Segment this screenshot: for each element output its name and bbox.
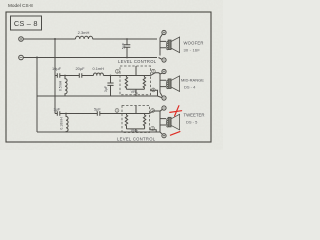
wire: vertical feed from plus rail down to mid and tweeter rows xyxy=(54,39,56,114)
wire: plus input to inductor xyxy=(23,38,75,40)
wire: tweeter row C6 to level control xyxy=(100,113,122,115)
wire: mid minus stub xyxy=(160,92,162,96)
woofer plus terminal xyxy=(162,30,166,34)
wire: minus rail xyxy=(23,57,157,59)
dashed box VR1 level control xyxy=(120,66,151,95)
tweeter minus terminal xyxy=(162,106,166,110)
resistor VR2b xyxy=(143,114,145,129)
wire: tweeter minus stub xyxy=(160,109,162,111)
woofer plus glyph xyxy=(163,31,165,33)
junction dot woofer cap bottom xyxy=(126,57,128,59)
woofer minus terminal xyxy=(162,58,166,62)
wire: woofer terminal bar xyxy=(159,38,161,56)
paper background xyxy=(0,0,223,150)
capacitor C1 5uF (woofer shunt) xyxy=(124,39,131,58)
wire: tweeter level control through wire xyxy=(122,113,150,115)
woofer minus glyph xyxy=(163,59,165,61)
wire: VR2 resistor bottom tie xyxy=(127,128,145,130)
wire: mid row L3 to level control xyxy=(103,75,123,77)
resistor VR1b xyxy=(143,76,145,90)
mid minus glyph xyxy=(163,97,165,99)
tweeter plus terminal xyxy=(162,134,166,138)
wire: VR2 wiper vertical xyxy=(135,106,137,133)
dashed box VR2 level control xyxy=(122,106,150,133)
capacitor C5 3uF xyxy=(57,111,60,116)
wire: mid level control through wire xyxy=(120,75,151,77)
wire: mid row start xyxy=(55,75,57,77)
resistor VR2a xyxy=(125,114,127,129)
input plus glyph xyxy=(20,38,22,40)
wire: tweeter output to speaker xyxy=(150,111,161,114)
tweeter speaker icon xyxy=(166,114,179,130)
mid plus glyph xyxy=(163,70,165,72)
mid-range speaker icon xyxy=(166,76,179,92)
mid speaker minus terminal xyxy=(162,96,166,100)
inductor L4 0.18mH (tweeter shunt) xyxy=(66,114,68,133)
plus/minus glyphs in terminals xyxy=(20,31,165,136)
junction dot woofer cap top xyxy=(126,38,128,40)
red annotation X on tweeter xyxy=(170,106,182,136)
wire: tweeter coil nubs xyxy=(160,119,166,125)
wire: mid coil nubs xyxy=(160,80,166,86)
inductor L2 0.5mH (mid shunt) xyxy=(65,76,67,97)
wire: tweeter plus stub xyxy=(160,132,162,134)
pin label 2 VR1 xyxy=(151,69,155,73)
CS-8 label box xyxy=(11,16,42,30)
tweeter plus glyph xyxy=(163,135,165,137)
wire: woofer coil nubs xyxy=(160,41,166,47)
wire: mid terminal bar xyxy=(159,74,161,93)
wire: vertical common drop from minus rail xyxy=(36,58,38,133)
wire: VR1 bottom exit to pin 3 xyxy=(151,90,158,96)
junction dot minus rail xyxy=(36,57,38,59)
input minus glyph xyxy=(20,57,22,59)
wire: top rail inductor to woofer xyxy=(93,38,158,40)
pin label 1 VR2 xyxy=(115,109,119,113)
wire: VR1 wiper vertical xyxy=(135,66,137,96)
wire: mid plus stub xyxy=(160,72,162,75)
input terminal minus xyxy=(19,55,24,60)
pin label 3 VR2 xyxy=(151,126,155,130)
junction dot mid cap shunt xyxy=(110,75,112,77)
wire: VR2 bottom exit to pin 3 xyxy=(150,130,157,132)
mid speaker plus terminal xyxy=(162,69,166,73)
resistor VR1a xyxy=(125,76,127,90)
pin label 3 VR1 xyxy=(151,88,155,92)
wire: mid row C3 to L3 xyxy=(82,75,94,77)
wire: tweeter bottom rail xyxy=(37,130,160,132)
input terminal plus xyxy=(19,37,24,42)
capacitor C2 10uF xyxy=(57,73,60,78)
schematic frame xyxy=(6,12,211,142)
wire: mid return rail xyxy=(37,96,162,98)
junction dot mid shunt xyxy=(64,75,66,77)
wire: woofer plus stub xyxy=(160,34,162,38)
capacitor C4 3uF (mid shunt) xyxy=(107,76,113,97)
woofer speaker icon xyxy=(166,37,179,53)
wire: mid row C2 to C3 xyxy=(60,75,80,77)
wire: tweeter row C5 to C6 xyxy=(60,113,98,115)
paper grain overlay xyxy=(0,0,223,150)
pin label 1 VR1 xyxy=(115,69,119,73)
inductor L3 0.1mH xyxy=(93,73,103,75)
capacitor C3 20uF xyxy=(79,73,82,78)
wire: mid output to speaker plus xyxy=(151,73,161,76)
red annotation underline below tweeter xyxy=(170,132,180,136)
junction dot tweeter shunt xyxy=(65,113,67,115)
wire: VR1 resistor bottom tie xyxy=(126,88,144,90)
wire: tweeter row start xyxy=(55,113,57,115)
tweeter minus glyph xyxy=(163,107,165,109)
junction dot top rail xyxy=(54,38,56,40)
wire: woofer minus stub xyxy=(159,58,162,60)
capacitor C6 5uF xyxy=(97,111,100,116)
pin label 2 VR2 xyxy=(151,109,155,113)
wire: tweeter terminal bar xyxy=(159,111,161,130)
inductor L1 2.3mH xyxy=(76,36,93,39)
